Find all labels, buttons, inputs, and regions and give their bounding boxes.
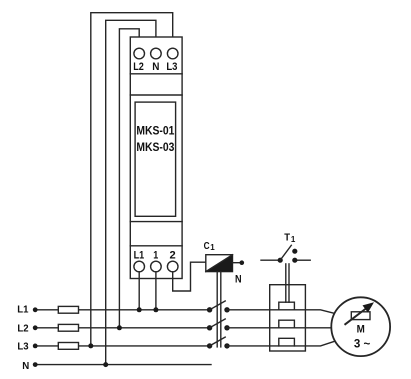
terminal L3 (module top) — [167, 48, 178, 59]
svg-text:N: N — [22, 360, 29, 372]
motor M circle — [331, 297, 390, 356]
module label panel — [135, 102, 176, 216]
module divider below label panel — [130, 221, 182, 223]
svg-text:1: 1 — [153, 249, 158, 261]
node junction L2 loop — [117, 325, 122, 330]
node junction L3 loop — [88, 343, 93, 348]
node L2 rail start dot — [33, 325, 38, 330]
terminal 2 (module bottom) — [167, 261, 178, 272]
wire contact pole 2 to motor (phase L2) — [227, 327, 331, 329]
fuse F3 — [58, 343, 78, 350]
thermal element phase L1 — [279, 302, 295, 310]
svg-text:2: 2 — [170, 249, 176, 261]
wire contact pole 3 to motor (phase L3) — [227, 341, 335, 346]
wire N rail to module terminal N (middle loop) — [106, 20, 156, 364]
wire terminal L1 to L1 rail — [138, 272, 140, 310]
wire N rail — [35, 364, 211, 366]
wire coil C1 to N point — [233, 262, 240, 264]
mechanical linkage thermal trip to contact T1 (double line) — [285, 264, 287, 302]
wire L3 rail — [35, 345, 209, 347]
module divider under top terminals — [130, 73, 182, 75]
svg-text:N: N — [235, 273, 242, 285]
wire L2 rail to module terminal L2 (inner loop) — [119, 29, 139, 328]
contactor main contact pole 2 (L2) — [207, 319, 230, 330]
wire terminal 2 to contactor coil C1 — [173, 262, 206, 291]
terminal L2 (module top) — [134, 48, 145, 59]
svg-text:3 ~: 3 ~ — [354, 336, 370, 350]
node L1 rail start dot — [33, 307, 38, 312]
node junction terminal 1 on L1 rail — [153, 307, 158, 312]
node N point at coil — [240, 260, 245, 265]
thermal element phase L3 — [279, 338, 295, 346]
node L3 rail start dot — [33, 344, 38, 349]
svg-text:L3: L3 — [166, 61, 177, 73]
node N rail start dot — [33, 362, 38, 367]
node junction terminal L1 on L1 rail — [137, 307, 142, 312]
svg-text:M: M — [357, 324, 365, 336]
svg-text:L1: L1 — [17, 304, 28, 316]
terminal N (module top) — [151, 48, 162, 59]
contactor main contact pole 3 (L3) — [207, 337, 230, 348]
relay module MKS outer body — [130, 37, 182, 279]
svg-text:N: N — [152, 61, 159, 73]
fuse F2 — [58, 324, 78, 331]
svg-text:1: 1 — [291, 235, 296, 244]
wire L1 rail — [35, 309, 209, 311]
svg-text:L1: L1 — [134, 249, 145, 261]
svg-text:MKS-03: MKS-03 — [136, 140, 174, 154]
svg-text:L2: L2 — [133, 61, 144, 73]
contactor main contact pole 1 (L1) — [207, 301, 230, 312]
svg-text:L3: L3 — [17, 341, 28, 353]
svg-text:MKS-01: MKS-01 — [136, 123, 174, 137]
thermal element phase L2 — [279, 320, 295, 328]
module divider above bottom terminals — [130, 245, 182, 247]
svg-text:C: C — [204, 240, 210, 252]
wire terminal 1 to L1 rail — [155, 272, 157, 310]
wire L2 rail — [35, 327, 209, 329]
thermal overload relay box — [270, 285, 306, 351]
mechanical linkage of contactor C1 (double line) — [216, 272, 218, 347]
terminal L1 (module bottom) — [134, 261, 145, 272]
module divider above label panel — [130, 94, 182, 96]
fuse F1 — [58, 306, 78, 313]
thermistor sensor symbol in motor — [351, 312, 370, 320]
svg-text:1: 1 — [210, 243, 215, 252]
svg-text:T: T — [284, 231, 290, 243]
svg-text:L2: L2 — [17, 323, 28, 335]
contact T1 (thermal relay trip contact) — [261, 245, 310, 263]
node junction N loop — [103, 362, 108, 367]
contactor coil C1 — [206, 255, 233, 272]
wire contact pole 1 to motor (phase L1) — [227, 310, 335, 314]
wire L3 rail to module terminal L3 (outer loop) — [91, 13, 173, 346]
terminal 1 (module bottom) — [151, 261, 162, 272]
